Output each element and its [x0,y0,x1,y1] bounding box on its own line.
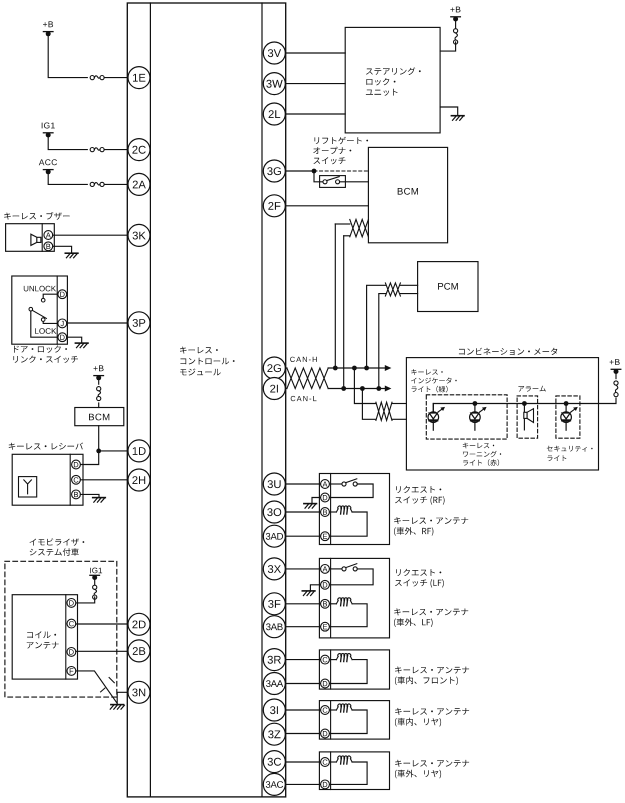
wire 3F to pin B [285,603,320,605]
security light LED [561,404,578,431]
wire twist to meter box upper [392,403,406,405]
module connector 3R [263,649,285,671]
receiver antenna symbol [19,477,37,497]
wire connector to 1E [104,77,128,79]
antenna interior rear connector strip line [330,701,332,740]
wire IG1 down [94,578,96,588]
wire junction to receiver pin D [80,451,98,465]
antenna interior rear pin D [321,729,330,738]
wire pin C to coil interior front [329,659,336,661]
security light dashed box [556,396,580,438]
wire BCM CAN-H horizontal [335,223,350,225]
coil pin D top [67,599,76,608]
inline connector on IG1 wire (immobilizer) [93,585,97,599]
wire BCM CAN-H vertical [334,224,336,368]
buzzer connector strip line [41,224,43,252]
junction bus / security LED [564,401,569,406]
module connector 3N [128,681,150,703]
keyless antenna box interior front [319,650,389,689]
buzzer speaker symbol [31,234,41,245]
coil pin D [67,648,76,657]
keyless antenna box interior rear [319,701,389,740]
label steering lock unit [366,67,421,96]
wire junction down to switch [314,171,323,182]
BCM twisted pair [350,219,369,236]
wire 3N to ground [117,692,128,703]
module connector 3W [263,73,285,95]
door lock pin D bottom [58,333,67,342]
wire pin J to 3P [67,322,128,324]
request LF pin D [321,580,330,589]
door lock pin J [58,319,67,328]
wire connector to steering lock [440,42,456,51]
wire BCM CAN-L horizontal [344,235,350,237]
wire to pin C exterior rear [285,761,320,763]
keyless antenna RF coil [336,506,352,514]
module connector 3V [263,42,285,64]
BCM box (right) [368,147,447,242]
lock contact [41,318,45,322]
label keyless antenna LF [394,608,468,627]
wire to pin D exterior rear [285,783,320,785]
module connector 3U [263,473,285,495]
wire to pin C interior rear [285,709,320,711]
wire 2L to steering lock [285,113,345,115]
antenna interior front connector strip line [330,650,332,689]
module connector 3P [128,312,150,334]
CAN-H line [328,367,385,369]
wire to pin C interior front [285,659,320,661]
wire 3W to steering lock [285,83,345,85]
wire CAN-H drop to meter twist [354,368,376,404]
keyless antenna LF coil [336,598,352,606]
wire coil return to pin D exterior rear [329,762,367,784]
junction bus / alarm [522,401,527,406]
label keyless antenna interior rear [395,708,469,727]
PCM box [418,262,478,312]
wire 3G to junction [285,170,314,172]
antenna coil interior rear [336,704,352,712]
wire +B to 1E [48,34,87,78]
wire coil F diagonal [76,671,117,703]
module connector 3G [263,160,285,182]
wire connector to 2C [104,149,128,151]
module connector 2D [128,613,150,635]
wire switch RF return to pin D [329,484,373,498]
keyless antenna box exterior rear [319,752,389,790]
buzzer pin B [44,242,53,251]
wire pin D to ground [67,337,82,343]
receiver pin B [72,490,81,499]
meter bus wire [433,398,616,412]
wire 3AB to pin E [285,626,320,628]
label keyless warning light (red) [463,443,502,466]
BCM text [89,414,109,421]
module connector 3I [263,699,285,721]
wire buzzer B to ground [53,246,72,253]
module right connector strip line [261,3,263,797]
label UNLOCK [24,286,56,292]
switch pivot contact [29,307,33,311]
diagonal dash mark [109,678,114,683]
alarm speaker symbol [524,404,534,430]
label request switch LF [395,569,444,588]
module connector 1E [128,67,150,89]
switch arm [32,310,46,318]
junction bus / warning LED [473,401,478,406]
immobilizer ground [110,705,124,710]
wire pin A to switch LF [329,568,342,570]
wire pin B to coil RF [329,511,336,513]
wire CAN-L drop to meter twist [362,389,376,420]
junction CAN-H / PCM [364,366,369,371]
wire BCM to junction [98,426,100,451]
wire buzzer A to 3K [53,234,128,236]
label CAN-L [291,396,317,401]
wire BCM CAN-L vertical [343,236,345,389]
keyless warning LED (red) [470,404,487,431]
request LF pin A [321,565,330,574]
inline connector on BCM +B wire [97,387,101,401]
wire coil return to pin D interior rear [329,710,367,734]
wire lock contact to pin J [43,321,58,323]
junction CAN-L / meter drop [360,386,365,391]
immobilizer dashed box [5,561,117,697]
PCM twisted pair [385,283,400,296]
receiver pin D [72,460,81,469]
wire coil return to pin D interior front [329,660,367,684]
antenna exterior rear pin C [321,758,330,767]
inline connector on ACC wire [90,182,104,186]
dashed wire to BCM [314,170,368,172]
antenna coil interior front [336,654,352,662]
wire PCM upper to twist [367,285,418,368]
label alarm [518,386,545,392]
module label keyless control module [180,347,235,376]
wire receiver C to 2H [80,479,128,481]
request LF ground [302,591,315,596]
label keyless antenna RF [394,517,468,536]
wire switch LF return to pin D [329,569,373,585]
receiver pin C [72,475,81,484]
module connector 2A [128,173,150,195]
keyless buzzer box [6,224,55,252]
steering lock unit box [345,27,440,132]
liftgate switch box [320,176,346,188]
buzzer ground [65,253,78,258]
wire pin B to coil LF [329,603,336,605]
coil pin C [67,619,76,628]
alarm dashed box [517,396,538,438]
receiver ground [93,498,106,503]
indicator lights dashed box [426,395,507,439]
buzzer pin A [44,231,53,240]
wire 2F to BCM [285,205,368,207]
+B terminal (top right) [450,7,460,22]
module connector 3F [263,593,285,615]
label LOCK [35,328,56,334]
combination meter box [406,358,598,470]
door lock ground [75,343,88,348]
wire 2G stub [285,367,287,369]
module connector 3O [263,501,285,523]
request LF pin E [321,622,330,631]
wire coil LF return to pin E [329,604,367,627]
request switch LF contacts [342,564,357,571]
wire PCM lower to twist [379,294,418,389]
keyless indicator LED (green) [428,404,445,431]
module connector 2G [263,357,285,379]
label IG1 (immobilizer) [90,568,102,574]
wire 2I stub [285,388,287,390]
request RF pin B [321,508,330,517]
+B terminal (top left) [43,21,53,36]
module connector 2C [128,139,150,161]
module connector 3AB [263,616,285,638]
module connector 2I [263,378,285,400]
junction CAN-H / meter drop [352,366,357,371]
ACC terminal [39,159,57,174]
wire steering lock to ground [440,107,458,115]
request RF connector strip line [330,474,332,545]
wire pin D RF to ground [312,498,321,504]
+B terminal (meter) [610,359,621,374]
wire pin C to coil interior rear [329,709,336,711]
label request switch RF [395,486,445,505]
keyless receiver box [12,454,83,505]
coil connector strip line [65,595,67,679]
label door lock link switch [13,345,78,363]
module left connector strip line [149,3,151,797]
request RF pin D [321,493,330,502]
wire +B down [98,378,100,384]
wire unlock contact to pin D [43,294,58,298]
CAN-L line [328,388,385,390]
inline connector on steering +B [454,29,458,44]
module connector 2L [263,103,285,125]
label coil antenna [27,631,59,648]
module connector 3K [128,224,150,246]
wire pin C to coil exterior rear [329,761,336,763]
request LF pin B [321,599,330,608]
inline connector on meter +B [614,381,618,397]
steering lock ground [451,116,464,121]
CAN-L arrow [385,386,392,392]
+B terminal (above BCM) [94,365,104,380]
IG1 terminal [42,123,55,138]
IG1 terminal (immobilizer) [90,575,100,580]
inline connector on IG1 wire [90,148,104,152]
wire ACC to 2A [48,172,87,185]
label keyless indicator light (green) [411,369,457,392]
wire switch to BCM [340,181,369,183]
door lock link switch box [12,276,68,344]
label immobilizer system [30,538,85,556]
wire coil RF return to pin E [329,512,367,536]
wire junction to 1D [99,450,128,452]
module connector 3AA [263,673,285,695]
junction dot 3G [312,169,317,174]
receiver connector strip line [69,454,71,505]
BCM text (right) [398,188,418,195]
wire twist to meter box lower [392,418,406,420]
antenna coil exterior rear [336,756,352,764]
module connector 1D [128,440,150,462]
label CAN-H [290,357,317,362]
antenna interior front pin C [321,655,330,664]
coil antenna box [12,595,77,679]
label liftgate opener switch [313,137,368,165]
meter twisted pair [376,402,392,420]
request RF pin A [321,480,330,489]
wire to pin D interior rear [285,733,320,735]
label keyless buzzer [4,212,69,220]
liftgate switch contacts [323,177,340,184]
module connector 2H [128,469,150,491]
junction CAN-L / BCM [341,386,346,391]
wire connector to 2A [104,183,128,185]
request RF ground [304,504,317,509]
wire IG1 to 2C [48,135,87,150]
module connector 3AD [263,525,285,547]
request LF connector strip line [330,558,332,638]
antenna interior rear pin C [321,706,330,715]
wire connector to BCM [98,403,100,408]
coil pin F [67,667,76,676]
wire meter +B down [615,372,617,379]
wire connector to coil pin D [76,597,95,603]
junction CAN-L / PCM [376,386,381,391]
label combination meter [459,348,557,355]
CAN twisted pair [287,368,328,389]
label keyless receiver [9,443,83,450]
wire coil C to 2D [76,623,128,625]
request RF pin E [321,532,330,541]
CAN-H arrow [385,365,392,371]
wire 3AD to pin E [285,535,320,537]
module connector 2F [263,195,285,217]
junction dot BCM/1D [96,449,101,454]
module connector 3AC [263,773,285,795]
wire receiver B to ground [80,494,99,497]
wire 3U to pin A [285,483,320,485]
keyless control module box [127,3,285,797]
wire +B down (top right) [455,19,457,29]
request switch LF box [319,558,389,638]
door lock connector strip line [56,276,58,344]
wire 3X to pin A [285,568,320,570]
label keyless antenna interior front [395,667,469,686]
antenna exterior rear pin D [321,780,330,789]
door lock pin D top [58,290,67,299]
label keyless antenna exterior rear [395,760,469,779]
wire to pin D interior front [285,683,320,685]
module connector 3C [263,751,285,773]
junction CAN-H / BCM [333,366,338,371]
wire 3O to pin B [285,511,320,513]
module connector 2B [128,640,150,662]
antenna exterior rear connector strip line [330,752,332,790]
BCM box (left) [75,408,124,426]
module connector 3X [263,558,285,580]
label security light [547,446,593,461]
wire pin D LF to ground [310,585,320,591]
wire coil D to 2B [76,650,128,652]
diagonal tick mark [101,688,105,692]
wire pin A to switch [329,483,342,485]
wire 3V to steering lock [285,52,345,54]
PCM text [438,283,458,290]
module connector 3Z [263,723,285,745]
antenna interior front pin D [321,679,330,688]
request switch RF box [319,474,389,545]
wire pivot to pin D bottom [31,311,58,337]
inline connector on +B wire [90,76,104,80]
request switch RF contacts [342,479,357,486]
